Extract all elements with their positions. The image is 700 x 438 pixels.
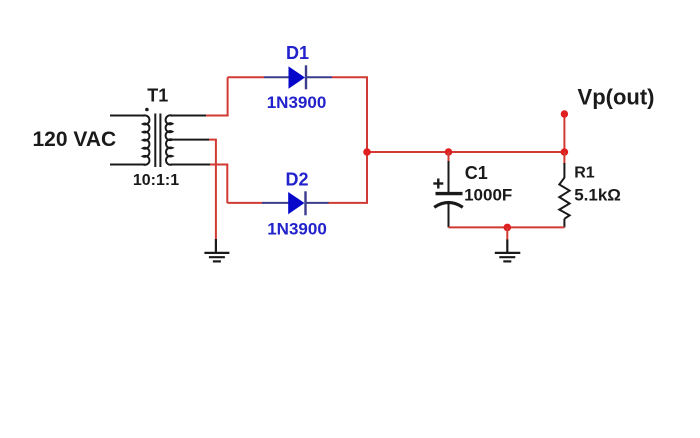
wire Vp riser [563,114,565,152]
junction node at R1 [561,148,569,156]
wire output rail [367,151,564,153]
wire to D1 anode [228,76,264,78]
wire primary top stub [110,115,145,117]
junction node at bottom rail [504,224,512,232]
ground (transformer center tap) [204,239,229,261]
transformer T1 core [154,114,156,168]
wire riser to D1 [227,77,229,116]
wire ground stub [506,227,508,240]
transformer T1 secondary top winding [166,115,173,140]
capacitor C1 [434,152,463,227]
wire secondary top (red) [206,115,229,117]
wire center tap drop to ground [215,140,217,240]
svg-text:R1: R1 [574,165,595,182]
wire center tap (red) [209,139,217,141]
resistor R1 [559,152,569,227]
svg-text:5.1kΩ: 5.1kΩ [574,186,621,205]
transformer T1 secondary bottom winding [166,139,172,165]
svg-text:Vp(out): Vp(out) [578,85,655,110]
svg-text:1N3900: 1N3900 [267,93,327,112]
ground (output return) [495,240,521,262]
wire secondary bottom (black) [170,164,210,166]
junction node at C1 [445,148,453,156]
transformer T1 primary winding [143,115,149,164]
svg-text:D1: D1 [286,43,309,63]
transformer T1 phase dot [145,108,149,112]
capacitor C1 plus sign [433,179,443,189]
wire secondary bottom (red) [210,164,228,166]
wire cathode bus vertical [366,77,368,203]
junction node at cathode bus [363,148,371,156]
diode D2 [262,191,329,215]
svg-text:10:1:1: 10:1:1 [133,172,179,189]
wire drop to D2 [226,165,228,203]
svg-text:1N3900: 1N3900 [267,219,327,238]
wire bottom rail [449,226,565,228]
svg-text:D2: D2 [285,169,308,189]
wire D2 cathode out [329,202,369,204]
wire D1 cathode out [332,76,368,78]
svg-text:1000F: 1000F [464,186,512,205]
svg-text:120 VAC: 120 VAC [33,128,117,151]
wire primary bottom stub [110,164,145,166]
terminal dot Vp(out) [561,110,568,117]
wire center tap (black) [170,139,209,141]
svg-text:T1: T1 [147,86,168,106]
svg-text:C1: C1 [465,163,488,183]
wire to D2 anode [227,202,262,204]
wire secondary top (black) [170,115,206,117]
diode D1 [264,65,332,89]
